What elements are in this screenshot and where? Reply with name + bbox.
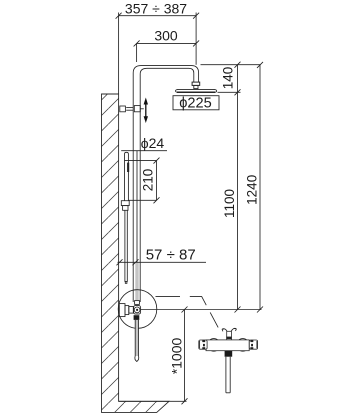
detail mixer: bottom black connector — [225, 351, 233, 357]
shower column riser pipe — [133, 66, 198, 302]
svg-text:*1000: *1000 — [169, 337, 185, 374]
hose below mixer — [135, 320, 139, 362]
mixer lever knob — [129, 307, 134, 314]
mixer neck — [125, 306, 129, 315]
dimension 140 — [221, 62, 241, 96]
detail mixer: flow arrow — [222, 328, 236, 331]
dashed detail leader — [156, 297, 220, 330]
dimension box 210 — [124, 158, 159, 204]
grey hose section in column — [135, 263, 138, 301]
svg-text:1100: 1100 — [222, 189, 237, 218]
dimension 357 ÷ 387 — [116, 1, 200, 94]
hand shower wand — [125, 210, 127, 283]
detail mixer: right knob — [249, 340, 257, 349]
wall bracket — [120, 106, 144, 112]
detail mixer: center diverter knob — [226, 331, 232, 341]
hand shower handle on rail — [125, 152, 130, 200]
shower arm connector nut — [192, 82, 200, 89]
svg-text:ϕ225: ϕ225 — [179, 95, 212, 111]
wall mixer flange — [119, 304, 125, 317]
label box Ø225 — [173, 95, 219, 111]
dimension 1100 — [222, 92, 241, 312]
svg-text:140: 140 — [221, 67, 236, 90]
top extension line (ceiling reference) — [201, 64, 261, 66]
wall (hatched) — [102, 94, 170, 412]
dimension 57 ÷ 87 — [117, 246, 207, 265]
detail mixer: hand shower spout — [226, 357, 230, 393]
svg-text:57 ÷ 87: 57 ÷ 87 — [146, 246, 196, 263]
mixer bottom dark connector — [134, 315, 140, 320]
extension line at shower head level — [218, 91, 241, 93]
svg-text:1240: 1240 — [245, 175, 260, 205]
mixer round body — [134, 306, 141, 315]
detail mixer: left knob — [199, 340, 207, 349]
svg-text:300: 300 — [154, 27, 178, 43]
svg-text:210: 210 — [141, 169, 156, 192]
hose line inside column — [136, 151, 138, 262]
floor surface line — [119, 400, 187, 402]
svg-text:ϕ24: ϕ24 — [141, 135, 165, 151]
detail mixer: body bar — [206, 340, 249, 351]
dimension 300 — [134, 27, 200, 62]
label Ø24 — [121, 135, 167, 151]
svg-text:357 ÷ 387: 357 ÷ 387 — [125, 1, 187, 17]
detail mixer: union discs — [208, 339, 221, 352]
mixer top connector — [135, 301, 140, 305]
dimension *1000 — [169, 307, 188, 405]
detail circle around mixer — [118, 290, 157, 329]
overhead shower head disc — [176, 89, 217, 92]
slider holder — [121, 201, 129, 211]
bottom extension line at mixer level — [141, 309, 262, 311]
dimension 1240 — [245, 62, 264, 313]
height adjust arrow — [144, 98, 148, 124]
